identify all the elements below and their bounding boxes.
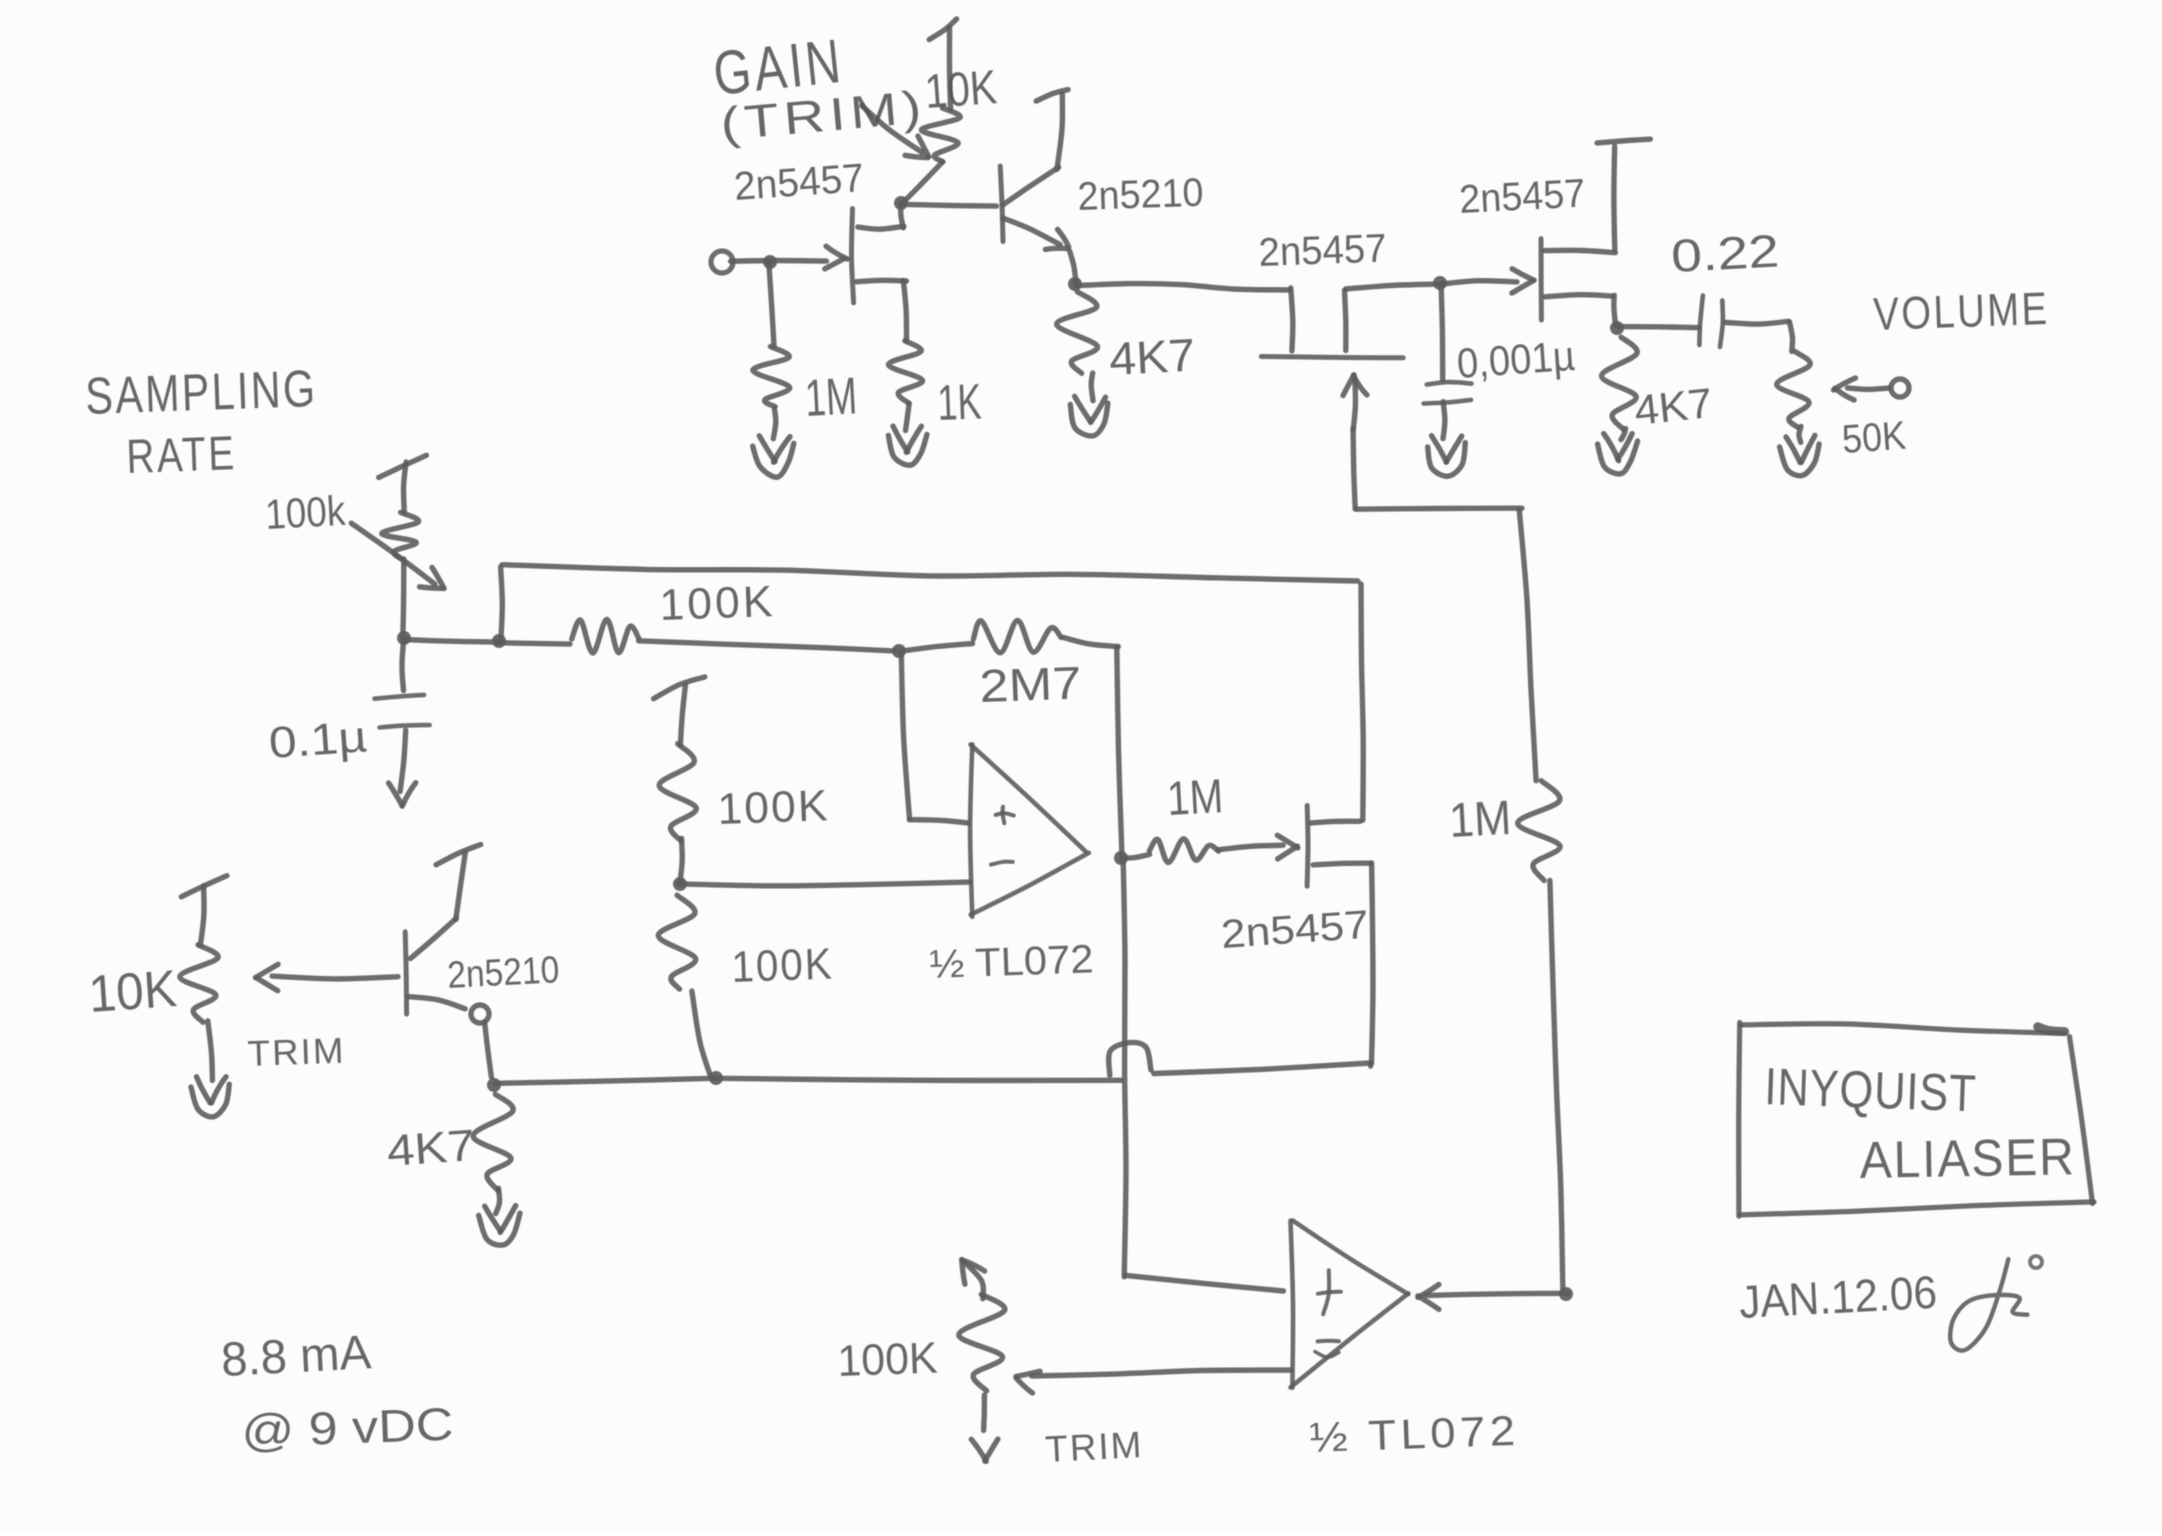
label R2 1K [936,373,982,431]
potentiometer R7 100k top tick [379,455,427,477]
wire Q1 drain up to pot node [901,203,904,228]
wire R10 bottom lead [680,838,682,881]
wiper arrow of GAIN trim pot [862,106,922,153]
wire bottom rail to Q6 collector [496,1078,718,1083]
wire Q6 supply lead [456,853,466,920]
svg-text:100K: 100K [717,781,831,834]
svg-text:0,001µ: 0,001µ [1455,332,1576,387]
label R14 TRIM [1044,1424,1144,1470]
svg-text:ALIASER: ALIASER [1859,1128,2076,1190]
wire R14 top lead [962,1260,984,1299]
label GAIN [710,27,847,109]
resistor R9 2M7 body [973,620,1061,652]
wire Q6 collector down to rail [485,1022,492,1077]
svg-text:0.22: 0.22 [1670,224,1781,282]
label 10K gain pot [923,61,999,119]
wire Q5 source stub [1313,863,1370,865]
arrowhead into Q4 gate [1512,269,1534,293]
label R6 50K [1841,414,1908,462]
junction dot before Q4 [1433,276,1447,290]
op-amp U1A minus sign [991,862,1013,865]
wire Q6 emitter diagonal [411,918,457,958]
svg-text:TRIM: TRIM [247,1030,346,1074]
svg-text:VOLUME: VOLUME [1873,282,2051,340]
wire pot 10K bottom lead [902,162,943,204]
wire bottom rail left segment [715,1078,1121,1080]
svg-text:2n5210: 2n5210 [1077,171,1204,219]
junction dot sampling node [397,631,411,645]
resistor R2 1K body [888,341,922,403]
signature [1950,1256,2042,1351]
label C3 0.1u [267,712,368,768]
transistor Q3 2n5457 channel bar [1261,357,1403,358]
arrowhead into U1B output (left) [1418,1285,1439,1310]
wire Q4 source down to node [1614,295,1616,325]
junction dot Q2 collector node [1068,277,1082,291]
wire corner to U1B + input [1126,1275,1284,1291]
potentiometer R7 100k body [382,512,419,560]
junction dot U1B output corner [1559,1287,1573,1301]
transistor Q6 2n5210 base bar [405,932,406,1014]
wire Q4 drain stub [1545,250,1616,252]
svg-text:10K: 10K [923,61,999,119]
resistor R14 100K trim body [959,1294,1005,1391]
label Q4 2n5457 [1458,171,1586,222]
arrowhead Q2 collector [1046,229,1069,249]
label R10 100K [717,781,831,834]
node Q6 collector terminal [471,1005,489,1023]
arrowhead U1B - wire (left) [1016,1371,1040,1393]
wire Q6 collector diagonal [409,997,465,1009]
wire R15 top lead [200,886,204,946]
wire R11 bottom lead [692,991,710,1076]
arrowhead into Q5 gate [1277,835,1297,859]
junction dot bottom rail Q6 [487,1078,501,1092]
svg-text:100k: 100k [264,487,347,538]
svg-text:2n5457: 2n5457 [733,156,866,209]
wire R7 bottom lead [403,559,404,637]
wire R6 bottom lead [1799,427,1801,443]
wire R15 bottom lead [208,1021,213,1081]
svg-text:100K: 100K [731,939,835,992]
wire Q1 drain stub [858,226,904,229]
wire Q3 gate down [1353,429,1355,510]
wire 2M7 top lead [901,644,973,652]
wire Q2 supply lead [1057,94,1063,169]
label R1 1M [804,367,859,428]
svg-text:TRIM: TRIM [1044,1424,1144,1470]
label U1A 1/2 TL072 [929,937,1094,987]
ground below R6 [1780,435,1820,475]
capacitor C1 bottom lead [1443,402,1445,439]
svg-text:4K7: 4K7 [1108,329,1197,385]
title box right edge [2070,1037,2093,1204]
resistor R1 1M body [753,347,790,407]
capacitor C1 plate 2 [1424,400,1471,404]
wire C2 to volume pot [1726,321,1789,324]
svg-text:JAN.12.06: JAN.12.06 [1738,1266,1938,1328]
wire volume wiper arrow shaft [1848,388,1890,390]
wire Q3 gate to 1M dropper [1357,508,1522,509]
wire Q3 source to node [1346,284,1437,289]
wire R5 bottom lead [1621,429,1626,440]
junction dot Q4 source node [1610,321,1624,335]
wire Q2 collector to node [1070,251,1077,285]
arrowhead R14 top (up-left) [962,1260,985,1284]
svg-text:50K: 50K [1841,414,1908,462]
label R4 4K7 [1108,329,1197,385]
svg-text:½ TL072: ½ TL072 [929,937,1094,987]
label R5 4K7 [1632,379,1714,434]
resistor R10 100K body [659,744,696,841]
svg-text:2n5457: 2n5457 [1258,227,1387,275]
ground below R2 [888,426,927,465]
junction dot input node [763,255,777,269]
wiper arrow of R7 100k [351,523,435,584]
label R9 2M7 [979,656,1083,712]
node IN (input jack) [711,251,733,273]
wire R12 to Q5 gate [1219,845,1284,850]
junction dot bottom rail R11 [709,1071,723,1085]
wire Q1 source down [903,280,906,341]
capacitor C3 0.1u top lead [402,639,404,690]
wire 2M7 right lead [1063,638,1118,647]
label SAMPLING [84,360,318,426]
svg-text:1M: 1M [804,367,859,428]
svg-text:1M: 1M [1448,792,1513,848]
wire 4K7 bottom lead [1091,373,1093,401]
transistor Q4 2n5457 gate bar [1539,239,1544,320]
wire Q4 source stub [1545,295,1613,297]
label R15 10K [87,960,179,1024]
wire 2M7 box left vertical [901,655,909,819]
transistor Q1 2n5457 gate bar [851,209,853,303]
potentiometer R15 10K top tick [181,876,227,897]
label RATE [126,427,238,484]
title box top edge [1741,1024,2065,1034]
svg-text:8.8 mA: 8.8 mA [220,1326,373,1387]
label current draw 8.8 mA [220,1326,373,1387]
svg-text:RATE: RATE [126,427,238,484]
resistor R4 4K7 body [1057,292,1098,374]
potentiometer R15 10K body [180,945,218,1023]
label C2 0.22 [1670,224,1781,282]
capacitor C2 0.22 plate 2 [1720,300,1723,347]
wire R10 top lead [680,685,685,744]
svg-text:½ TL072: ½ TL072 [1309,1407,1521,1461]
arrowhead volume wiper (left) [1834,378,1856,400]
ground below R5 [1598,434,1638,474]
label NYQUIST [1764,1058,1978,1123]
junction dot op1 + node [892,644,906,658]
junction dot pot bottom node [894,196,908,210]
label VOLUME [1873,282,2051,340]
label R7 100k [264,487,347,538]
wire Q2 collector diagonal [1003,218,1060,245]
wire R14 bottom lead [981,1395,987,1430]
svg-text:2n5457: 2n5457 [1458,171,1586,222]
arrowhead C3 to ground (down) [389,783,416,807]
title box bottom edge [1741,1202,2095,1215]
label R11 100K [731,939,835,992]
svg-text:@ 9 vDC: @ 9 vDC [241,1398,455,1457]
svg-text:0.1µ: 0.1µ [267,712,368,768]
op-amp U1A plus sign [996,807,1014,824]
svg-text:INYQUIST: INYQUIST [1764,1058,1978,1123]
label Q5 2n5457 [1220,903,1371,957]
ground below R4 [1070,396,1108,436]
resistor R11 100K body [658,895,695,989]
label supply @ 9 vDC [241,1398,455,1457]
svg-text:10K: 10K [87,960,179,1024]
wire pot 10K top lead [949,28,950,110]
label R16 4K7 [385,1121,476,1176]
wire Q3 gate arrow shaft [1353,380,1355,429]
svg-text:2n5210: 2n5210 [446,949,560,997]
label Q1 2n5457 [733,156,866,209]
wire Q5 drain stub [1311,821,1360,823]
potentiometer R6 VOLUME 50K body [1777,351,1810,427]
op-amp U1A triangle top edge [971,745,1086,852]
svg-text:100K: 100K [837,1334,939,1386]
junction dot op1 - node [673,877,687,891]
wire sampling node to R8 [498,643,570,644]
wire op1 - input [679,882,970,886]
wire Q2 emitter diagonal [1003,167,1059,205]
wire 1M dropper bottom vertical [1550,881,1563,1293]
wire to op1 + input [909,820,967,823]
wire 1M dropper top vertical [1519,510,1536,781]
op-amp U1A triangle left edge [970,744,972,916]
supply tick above Q6 [436,845,481,865]
op-amp U1B plus sign [1318,1270,1341,1314]
capacitor C3 plate 2 [380,725,430,728]
capacitor C1 0.001u top lead [1441,284,1443,380]
transistor Q2 2n5210 base bar [1000,166,1003,241]
wire bottom rail right segment [1154,1063,1371,1074]
label Q3 2n5457 [1258,227,1387,275]
wire 1M bottom lead [773,409,776,439]
wire R15 wiper arrow shaft [272,976,398,979]
resistor R13 1M body [1518,781,1560,881]
capacitor C1 plate 1 [1427,382,1472,384]
svg-text:1K: 1K [936,373,982,431]
ground below R16 [479,1206,520,1246]
label R15 TRIM [247,1030,346,1074]
resistor R16 4K7 body [473,1094,513,1190]
arrowhead R15 wiper (left) [255,964,278,990]
svg-text:100K: 100K [659,577,777,630]
potentiometer R3 10K GAIN top tick [929,19,956,40]
op-amp U1A triangle bottom edge [971,853,1089,915]
wire feedback rail down to Q5 drain [1361,584,1363,820]
label R12 1M [1166,770,1225,826]
capacitor C3 bottom lead [400,730,406,791]
wire feedback tap up [501,567,503,642]
wire R8 to inverting node [639,641,895,651]
capacitor C2 0.22 plate 1 [1699,296,1703,346]
svg-text:2M7: 2M7 [979,656,1083,712]
label R14 100K [837,1334,939,1386]
wire U1B output [1427,1293,1567,1295]
op-amp U1B triangle left edge [1291,1221,1294,1388]
wire Q2 node to Q3 drain (long) [1076,284,1290,290]
op-amp U1B minus sign [1315,1341,1339,1358]
arrowhead of GAIN wiper [905,136,929,158]
wire sampling node right [405,640,498,643]
wire op1 output down to U1B [1123,860,1126,1277]
transistor Q5 2n5457 gate bar [1305,806,1311,887]
label R13 1M [1448,792,1513,848]
wire 1M top lead [769,262,774,346]
wire 1K bottom lead [906,403,910,430]
node volume wiper terminal [1891,379,1909,397]
wire Q1 source stub [857,280,907,281]
supply tick above R10 [654,677,705,699]
title box corner blob [2038,1027,2065,1032]
svg-text:4K7: 4K7 [385,1121,476,1176]
wire Q3 drain stub down [1291,288,1293,351]
wire 2M7 box right vertical [1117,647,1122,854]
label R8 100K [659,577,777,630]
junction dot op1 output [1114,851,1128,865]
arrowhead Q3 gate (up) [1343,375,1367,396]
svg-text:1M: 1M [1166,770,1225,826]
resistor R5 4K7 body [1601,337,1637,429]
svg-text:SAMPLING: SAMPLING [84,360,318,426]
supply tick above Q4 [1597,139,1650,143]
label Q2 2n5210 [1077,171,1204,219]
wire Q3 source stub up [1345,290,1346,350]
arrowhead R7 wiper [420,567,445,588]
wire bottom rail hop over vertical [1109,1042,1151,1075]
potentiometer R3 10K body [921,108,960,162]
label U1B 1/2 TL072 [1309,1407,1521,1461]
arrowhead R14 bottom (down) [971,1439,998,1461]
wire Q5 source corner to bottom rail [1368,1064,1374,1067]
arrowhead into Q1 gate [825,246,847,269]
supply tick above Q2 [1036,90,1068,102]
wire Q5 source down [1372,863,1373,1064]
wire Q4 supply lead [1611,146,1617,249]
wire input to Q1 gate [731,258,827,264]
wire pot node to Q2 base [902,204,997,206]
wire node to C2 [1618,327,1699,328]
label (TRIM) [718,80,928,150]
ground below C1 [1428,436,1466,477]
junction dot feedback tap [492,634,506,648]
capacitor C3 plate 1 [375,695,425,699]
wire node to Q4 gate [1441,281,1517,284]
wire op1 output lead [1122,854,1150,858]
ground below R15 [191,1077,229,1117]
title box left edge [1739,1023,1740,1217]
wire volume pot top corner [1790,322,1793,352]
ground below R1 [753,436,794,477]
wire R16 bottom lead [496,1188,500,1213]
resistor R12 1M body (horizontal) [1149,839,1218,863]
resistor R8 100K body (horizontal) [572,619,639,653]
label ALIASER [1859,1128,2076,1190]
svg-text:4K7: 4K7 [1632,379,1714,434]
wire R7 top lead [404,462,407,512]
label Q6 2n5210 [446,949,560,997]
op-amp U1B triangle bottom edge [1291,1293,1409,1387]
wire top feedback rail [502,565,1358,581]
label date JAN.12.06 [1738,1266,1938,1328]
label C1 0.001u [1455,332,1576,387]
op-amp U1B triangle top edge [1293,1221,1409,1295]
wire U1B - input [1032,1370,1291,1376]
